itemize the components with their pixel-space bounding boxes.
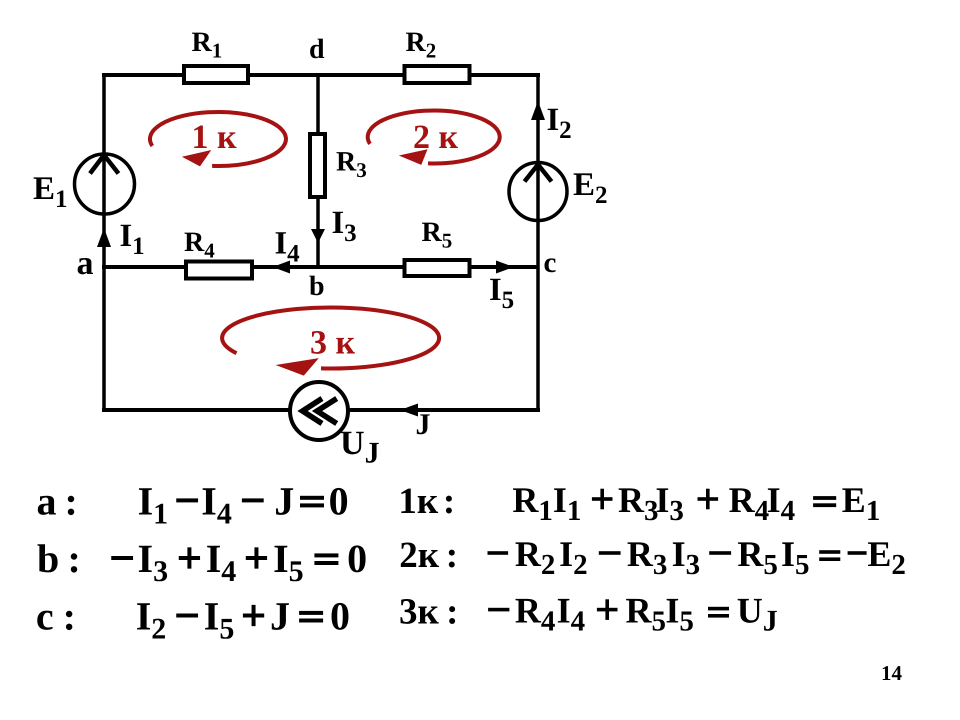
svg-text:UJ: UJ (340, 425, 380, 470)
wire left (102, 73, 106, 412)
svg-text::: : (68, 536, 81, 581)
svg-text:14: 14 (881, 661, 903, 685)
svg-text:UJ: UJ (737, 591, 778, 638)
resistor R4 (186, 262, 252, 279)
resistor R5 (405, 260, 470, 276)
svg-text:I1: I1 (138, 478, 169, 530)
svg-text:I3: I3 (672, 534, 701, 581)
svg-text:0: 0 (347, 536, 367, 581)
svg-text:E1: E1 (33, 171, 68, 213)
loop 3k arc (222, 308, 439, 369)
svg-text:d: d (309, 34, 325, 65)
source E2 (509, 163, 567, 221)
svg-text:I4: I4 (767, 480, 796, 527)
equation node c (36, 594, 350, 646)
svg-text:R5: R5 (422, 217, 453, 253)
loop 2k arc (368, 110, 500, 163)
arrow I1 (97, 228, 111, 247)
arrow J (400, 404, 418, 417)
svg-text:I3: I3 (655, 480, 684, 527)
svg-text:R4: R4 (729, 480, 770, 527)
svg-text:J: J (270, 594, 290, 639)
equation node a (37, 478, 349, 530)
svg-text:J: J (274, 478, 294, 523)
svg-text::: : (63, 594, 76, 639)
svg-text:R1: R1 (512, 480, 553, 527)
svg-text:c: c (36, 594, 54, 639)
svg-text:3 к: 3 к (310, 325, 356, 362)
svg-text:2 к: 2 к (413, 119, 459, 156)
equation loop 3k (399, 591, 778, 638)
loop 1k arrowhead (182, 150, 211, 166)
current source J (290, 382, 348, 440)
svg-text:I5: I5 (273, 536, 304, 588)
svg-text:I2: I2 (136, 594, 167, 646)
svg-text:E2: E2 (573, 167, 608, 209)
svg-text:I4: I4 (206, 536, 237, 588)
svg-text:I5: I5 (489, 272, 514, 314)
svg-text:R5: R5 (737, 534, 778, 581)
arrow I4 (273, 261, 291, 274)
svg-text:I1: I1 (120, 218, 145, 260)
svg-text:b: b (309, 271, 325, 302)
svg-text:R3: R3 (627, 534, 668, 581)
svg-text:0: 0 (329, 478, 349, 523)
svg-text:a: a (37, 478, 57, 523)
loop 3k arrowhead (276, 358, 319, 376)
svg-text::: : (446, 535, 458, 576)
svg-text:I4: I4 (275, 225, 301, 267)
wire top (102, 73, 540, 77)
svg-text:R2: R2 (515, 534, 556, 581)
arrow I3 (311, 229, 325, 243)
svg-text::: : (65, 478, 78, 523)
svg-text:I5: I5 (204, 594, 235, 646)
svg-text::: : (443, 481, 455, 522)
svg-text:1 к: 1 к (192, 119, 238, 156)
svg-text:I4: I4 (557, 591, 586, 638)
svg-text:R3: R3 (336, 147, 367, 183)
resistor R1 (184, 66, 248, 83)
svg-text:R4: R4 (184, 227, 215, 263)
wire right (536, 73, 540, 412)
svg-text:E1: E1 (842, 480, 881, 527)
equation loop 1k (398, 480, 880, 527)
source E1 (75, 154, 135, 214)
wire bottom (102, 408, 540, 412)
resistor R2 (405, 66, 470, 83)
svg-text:1к: 1к (398, 481, 439, 522)
equation node b (37, 536, 367, 588)
loop 2k arrowhead (399, 149, 428, 165)
arrow I2 (531, 101, 545, 120)
svg-text:I3: I3 (332, 205, 357, 247)
svg-text:I4: I4 (201, 478, 232, 530)
svg-text:I2: I2 (547, 102, 572, 144)
svg-text:R1: R1 (192, 27, 223, 63)
svg-text:3к: 3к (399, 592, 440, 633)
wire R3 branch d-b (316, 75, 320, 267)
svg-text:0: 0 (330, 594, 350, 639)
svg-text:I5: I5 (781, 534, 810, 581)
resistor R3 (310, 134, 325, 197)
svg-text::: : (446, 592, 458, 633)
svg-text:2к: 2к (399, 535, 440, 576)
svg-text:R2: R2 (406, 27, 437, 63)
equation loop 2k (399, 534, 906, 581)
svg-text:I3: I3 (138, 536, 169, 588)
svg-text:I2: I2 (559, 534, 588, 581)
svg-text:I5: I5 (665, 591, 694, 638)
svg-text:J: J (416, 408, 431, 441)
svg-text:R5: R5 (626, 591, 667, 638)
svg-text:R4: R4 (515, 591, 556, 638)
svg-text:c: c (544, 247, 557, 279)
arrow I5 (496, 261, 514, 274)
loop 1k arc (150, 112, 286, 166)
wire middle a-b-c (102, 265, 538, 269)
svg-text:I1: I1 (553, 480, 582, 527)
svg-text:a: a (77, 245, 94, 282)
svg-text:R3: R3 (618, 480, 659, 527)
svg-text:b: b (37, 536, 59, 581)
svg-text:E2: E2 (867, 534, 906, 581)
